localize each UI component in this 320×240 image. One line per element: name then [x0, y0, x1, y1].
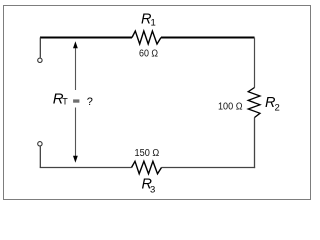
svg-text:1: 1 — [151, 18, 156, 29]
svg-text:100 Ω: 100 Ω — [218, 102, 243, 113]
svg-text:60 Ω: 60 Ω — [139, 49, 158, 60]
svg-text:3: 3 — [150, 185, 155, 196]
svg-text:2: 2 — [275, 103, 280, 114]
svg-text:T: T — [62, 97, 68, 107]
svg-text:?: ? — [87, 96, 93, 108]
svg-text:150 Ω: 150 Ω — [135, 148, 160, 159]
